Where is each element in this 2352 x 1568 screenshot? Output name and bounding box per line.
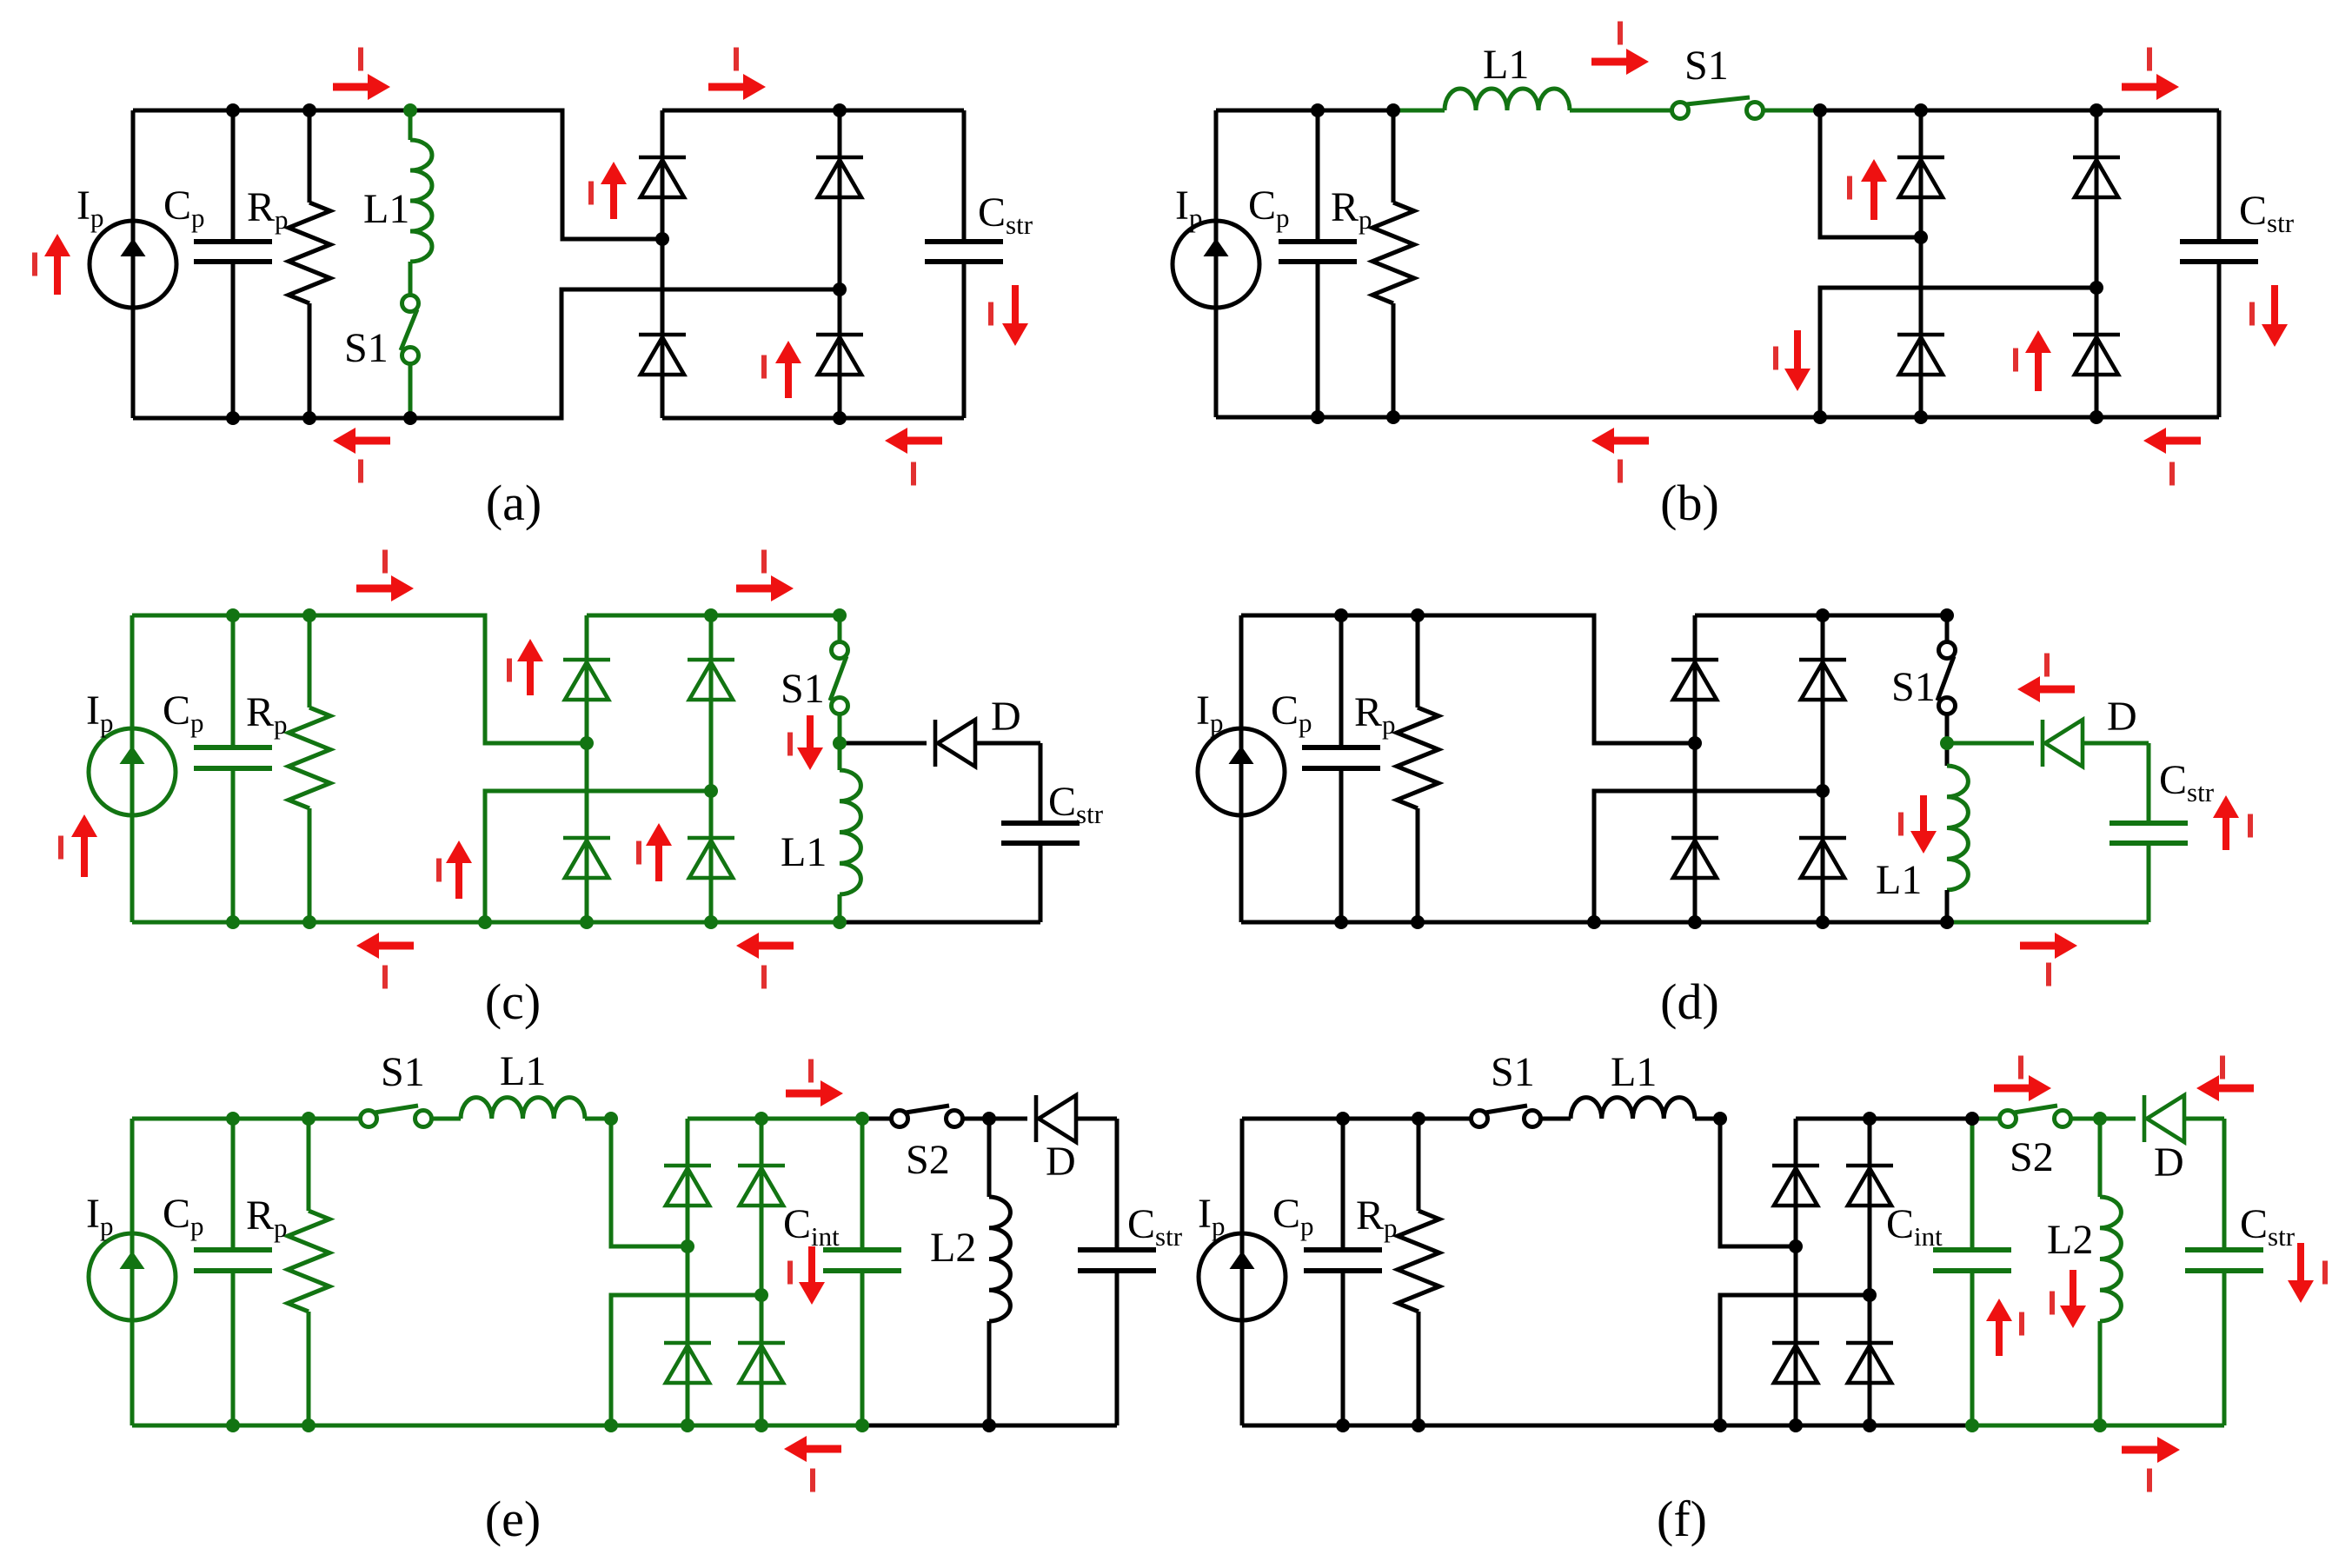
junction [226,608,240,622]
current arrow I top-right [708,74,766,100]
junction bridge right bottom [833,411,847,425]
svg-text:D: D [991,694,1021,740]
wire Cint bottom [860,1271,865,1425]
resistor Rp [1372,203,1414,303]
junction bridge right bottom [704,915,718,929]
wire node to diode D [989,1117,1027,1121]
inductor L2 [2100,1197,2121,1321]
svg-text:(a): (a) [486,475,541,531]
svg-text:Rp: Rp [246,689,288,740]
wire L2 top stub [987,1119,992,1197]
current label I [2147,48,2152,71]
wire node to L1 [838,743,842,770]
wire Cp bottom [1341,1271,1345,1425]
current arrow I bottom-left [333,428,390,454]
current arrow I Cstr [2288,1243,2314,1303]
diode D [1036,1095,1076,1142]
wire Cp top [1339,615,1344,747]
svg-text:Cp: Cp [1272,1191,1314,1241]
junction bridge left mid [655,232,669,246]
wire Cstr bottom [1115,1271,1120,1425]
diode D [2043,720,2083,767]
diode bridge bottom-left [664,1343,711,1383]
wire S1 to node [838,714,842,743]
wire S1 bottom stub [409,364,413,418]
current label I [32,253,37,276]
diode bridge top-left [563,660,610,700]
junction Cint bottom [855,1419,869,1432]
junction [1411,608,1425,622]
wire Cstr top [962,110,967,242]
capacitor Cstr [2185,1250,2263,1271]
capacitor Cp [1304,1250,1382,1271]
wire Rp top [1417,1119,1421,1211]
current label I [787,1261,793,1285]
wire Cp bottom [1339,768,1344,922]
inductor L1 [1571,1098,1695,1119]
wire node down to bridge left mid [1720,1119,1796,1246]
current source Ip [1173,221,1259,308]
wire S1 to node [1945,714,1950,743]
current arrow I left diode [1861,159,1887,220]
junction S1/L1/D node [1940,736,1954,750]
wire diode D to Cstr [2184,1117,2224,1121]
svg-text:L1: L1 [363,186,409,232]
current label I [1618,460,1623,483]
current label I [808,1060,814,1083]
current label I [787,733,793,756]
current arrow I bottom-right diode [646,823,672,881]
wire Rp bottom [308,303,312,418]
current arrow I L2 [2060,1270,2086,1328]
wire top rail left [1242,1117,1471,1121]
capacitor Cp [1302,747,1380,768]
junction S1 out [1813,103,1827,117]
wire L1 top stub [409,110,413,140]
junction bridge left top [1914,103,1928,117]
wire bridge left leg [1919,110,1923,417]
current label I [911,462,916,486]
inductor L1 [410,140,432,262]
current arrow I top [786,1080,843,1106]
junction L1 node [604,1112,618,1126]
current label I [2050,1292,2055,1315]
wire node to L1 [1945,743,1950,766]
current label I [1773,347,1778,370]
svg-text:L1: L1 [781,829,827,875]
wire bottom step to bridge right mid [1594,791,1823,922]
wire bottom step to bridge right mid [1720,1295,1870,1425]
current label I [2018,1056,2023,1080]
wire bottom rail green [1972,1424,2224,1428]
junction bridge left bottom [1914,410,1928,424]
junction [1336,1112,1350,1126]
svg-text:Rp: Rp [1354,689,1396,740]
junction bridge right top [2090,103,2103,117]
wire Cp top [1341,1119,1345,1250]
wire S1 to L1 [1541,1117,1571,1121]
junction L1 bottom [1940,915,1954,929]
wire bridge right leg [838,110,842,418]
svg-text:Ip: Ip [86,688,113,738]
current source Ip [1199,1233,1286,1320]
junction [226,103,240,117]
wire node to diode D [2100,1117,2136,1121]
svg-text:Cstr: Cstr [1048,779,1104,829]
capacitor Cstr [2180,242,2258,262]
wire L1 bottom stub [838,894,842,922]
resistor Rp [289,203,330,303]
diode bridge top-right [2073,157,2120,197]
current label I [58,836,63,860]
resistor Rp [288,1211,329,1312]
current label I [2046,963,2051,987]
junction bridge right top [1863,1112,1877,1126]
wire node to diode D [1947,741,2034,746]
switch S1 [401,296,419,364]
wire Rp bottom [1417,1312,1421,1425]
junction [1412,1419,1425,1432]
wire Cstr top [2217,110,2222,242]
wire bottom rail black [862,1424,1117,1428]
diode bridge top-left [1897,157,1944,197]
junction bridge right mid [1863,1288,1877,1302]
junction S1/L1/D node [833,736,847,750]
svg-text:S1: S1 [381,1049,425,1095]
junction bridge left bottom [580,915,594,929]
capacitor Cp [1279,242,1357,262]
wire left branch [1214,110,1219,417]
junction [403,411,417,425]
current arrow I L1 [1910,795,1937,854]
current label I [988,302,993,326]
current arrow I source [44,234,70,295]
wire top rail to bridge left mid [132,615,587,743]
wire Cstr top [2222,1119,2227,1250]
junction bridge right top [754,1112,768,1126]
wire Cstr top [1115,1119,1120,1250]
junction bottom step [1813,410,1827,424]
svg-text:Cp: Cp [1271,688,1312,738]
capacitor Cstr [2109,823,2188,843]
current label I [636,841,641,865]
current arrow I top-left [356,575,414,601]
capacitor Cint [1933,1250,2011,1271]
wire top rail to bridge left mid [1241,615,1695,743]
junction L2 bottom [2093,1419,2107,1432]
diode bridge top-left [1671,660,1718,700]
junction [1386,410,1400,424]
wire bottom rail [1216,415,2219,420]
junction [226,915,240,929]
wire left branch [130,615,135,922]
resistor Rp [1397,708,1438,808]
svg-text:S1: S1 [1684,43,1729,89]
current arrow I source [71,814,97,877]
capacitor Cp [194,242,272,262]
wire bridge left leg [585,615,589,922]
wire Cint to S2 [1972,1117,1999,1121]
junction bridge right mid [833,282,847,296]
current source Ip [89,1233,176,1320]
svg-text:L1: L1 [500,1048,546,1094]
diode bridge top-right [738,1166,785,1206]
wire Cp bottom [1316,262,1320,417]
wire S1 to bridge [1764,109,1820,113]
svg-text:Ip: Ip [1198,1191,1225,1241]
wire L1 to node [585,1117,611,1121]
junction bridge right mid [754,1288,768,1302]
diode bridge bottom-right [688,838,734,878]
current arrow I S2 [1994,1075,2051,1101]
junction [1334,915,1348,929]
switch S2 [2000,1106,2071,1127]
wire bridge top rail [662,109,964,113]
current arrow I diode D [2196,1075,2254,1101]
svg-text:L2: L2 [930,1225,976,1271]
wire Cp top [231,110,236,242]
wire diode D to Cstr [975,741,1040,746]
wire L1 to node [1695,1117,1720,1121]
switch S1 [1937,642,1956,714]
wire bottom rail black [840,920,1040,925]
wire top rail left [132,1117,360,1121]
diode bridge bottom-left [1897,335,1944,375]
junction S1 top [1940,608,1954,622]
junction L2 top [982,1112,996,1126]
current label I [358,48,363,71]
junction [302,608,316,622]
wire top rail to bridge left mid [133,110,662,239]
wire bridge left leg [661,110,665,418]
junction Cint top [855,1112,869,1126]
svg-text:Cp: Cp [163,183,205,233]
wire bridge right leg [1821,615,1825,922]
junction [1334,608,1348,622]
current arrow I bottom-right diode [775,341,801,398]
diode bridge bottom-right [1846,1343,1893,1383]
junction bottom step [1587,915,1601,929]
current arrow I right diode [2025,330,2051,391]
svg-text:Ip: Ip [76,183,103,233]
current label I [588,182,594,205]
wire bottom rail [1242,1424,1972,1428]
wire to bridge right mid [1820,288,2096,417]
wire top rail left [1216,109,1393,113]
current label I [1847,176,1852,200]
junction [302,1419,316,1432]
wire L1 to S1 [1570,109,1671,113]
wire S2 to node [963,1117,989,1121]
current arrow I bottom step [446,840,472,899]
wire bridge top rail [1820,109,2219,113]
current arrow I bottom [2122,1437,2180,1463]
wire Cint top [1970,1119,1975,1250]
junction bridge right bottom [1863,1419,1877,1432]
switch S1 [1472,1106,1541,1127]
wire node down to bridge left mid [611,1119,688,1246]
wire bridge right leg [709,615,714,922]
junction bridge left bottom [1688,915,1702,929]
wire left branch [130,1119,135,1425]
diode bridge bottom-right [1799,838,1846,878]
wire bridge top rail [688,1117,862,1121]
wire Cp bottom [231,1271,236,1425]
wire bridge left leg [1693,615,1698,922]
wire left branch [131,110,136,418]
wire L2 bottom stub [2098,1321,2103,1425]
junction [226,1419,240,1432]
current label I [2220,1056,2225,1080]
current arrow I after L1 [1591,49,1649,75]
wire Cstr bottom [2147,843,2151,922]
current label I [810,1469,815,1492]
current label I [507,659,512,682]
wire bridge bottom rail [662,416,964,421]
wire Rp top [1392,110,1396,203]
wire node to diode D [840,741,927,746]
wire Cstr bottom [962,262,967,418]
current label I [382,966,388,989]
svg-text:D: D [2107,694,2137,740]
capacitor Cp [194,1250,272,1271]
svg-text:Cp: Cp [1248,183,1290,233]
wire Cstr top [2147,743,2151,823]
current arrow I Cstr [2262,285,2288,347]
wire bridge top rail [587,614,840,618]
current arrow I bottom-left [1591,428,1649,454]
current arrow I top-right [2122,74,2179,100]
wire bridge left leg [686,1119,690,1425]
wire Cint bottom [1970,1271,1975,1425]
current label I [2169,462,2175,486]
svg-text:Cstr: Cstr [2159,757,2215,807]
wire Cint to S2 [862,1117,891,1121]
junction bridge left mid [580,736,594,750]
junction [1311,103,1325,117]
wire Rp top [1416,615,1420,708]
wire bottom step to bridge right mid [485,791,711,922]
wire Cint top [860,1119,865,1250]
junction [1411,915,1425,929]
wire Cp top [231,615,236,747]
junction bridge right top [833,103,847,117]
junction bridge left mid [1914,230,1928,244]
svg-text:(e): (e) [485,1491,541,1547]
svg-text:L1: L1 [1483,42,1529,88]
current arrow I top-right [736,575,794,601]
svg-text:Cp: Cp [163,688,204,738]
wire Rp top [308,615,312,708]
wire Rp top [307,1119,311,1211]
wire bridge right leg [760,1119,764,1425]
diode bridge top-right [1846,1166,1893,1206]
inductor L1 [840,770,860,894]
current arrow I top-left diode [601,162,627,219]
wire bottom rail [1241,920,1947,925]
current source Ip [89,728,176,815]
switch S1 [1672,97,1764,119]
current arrow I Cint [1986,1299,2012,1356]
current label I [2044,654,2050,677]
junction bridge right bottom [1816,915,1830,929]
junction [1386,103,1400,117]
svg-text:Cstr: Cstr [2239,188,2295,238]
wire bridge top rail [1695,614,1947,618]
svg-text:Ip: Ip [86,1191,113,1241]
junction L1 node [1713,1112,1727,1126]
wire left branch [1240,1119,1245,1425]
resistor Rp [1398,1211,1439,1312]
svg-text:Rp: Rp [1356,1193,1398,1243]
diode bridge top-right [816,157,863,197]
junction L2 top [2093,1112,2107,1126]
diode bridge bottom-left [639,335,686,375]
diode bridge bottom-left [1772,1343,1819,1383]
current label I [382,550,388,574]
svg-text:D: D [2154,1139,2184,1186]
current arrow I bottom-left [356,933,414,959]
switch S1 [830,642,848,714]
current label I [2147,1469,2152,1492]
wire L1 to S1 [409,262,413,295]
current label I [2019,1312,2024,1336]
junction bridge right top [1816,608,1830,622]
junction bridge right bottom [2090,410,2103,424]
current arrow I top-left [333,74,390,100]
wire Cstr bottom [2217,262,2222,417]
svg-text:Cint: Cint [783,1201,840,1252]
wire bottom rail green [1947,920,2149,925]
wire Cp top [1316,110,1320,242]
junction bridge right mid [2090,281,2103,295]
wire S1 top stub [838,615,842,642]
svg-text:Cstr: Cstr [1127,1201,1183,1252]
wire Cstr bottom [1039,843,1043,922]
wire Rp bottom [308,808,312,922]
inductor L1 [461,1098,585,1119]
junction bottom step [478,915,492,929]
diode bridge bottom-right [816,335,863,375]
capacitor Cstr [1001,823,1080,843]
current arrow I bottom-right [885,428,942,454]
current label I [2322,1261,2328,1285]
wire bottom step to bridge right mid [611,1295,761,1425]
switch S1 [361,1106,432,1127]
wire bottom rail [132,920,840,925]
current arrow I Cstr [2213,795,2239,850]
current label I [761,355,767,379]
wire bridge right leg [2095,110,2099,417]
inductor L1 [1947,766,1968,890]
svg-text:Cint: Cint [1886,1201,1943,1252]
svg-text:Ip: Ip [1196,688,1223,738]
wire Rp bottom [1392,303,1396,417]
wire bridge right leg [1868,1119,1872,1425]
diode bridge top-left [1772,1166,1819,1206]
junction [1336,1419,1350,1432]
wire diode D to Cstr [1076,1117,1117,1121]
current arrow I into node [797,715,823,770]
junction bridge right top [704,608,718,622]
current arrow I bottom [784,1436,841,1462]
junction bridge left mid [1789,1239,1803,1253]
junction bridge right mid [1816,784,1830,798]
current label I [358,460,363,483]
current arrow I Cint [799,1246,825,1305]
diode bridge top-right [1799,660,1846,700]
svg-text:S1: S1 [1891,664,1936,710]
